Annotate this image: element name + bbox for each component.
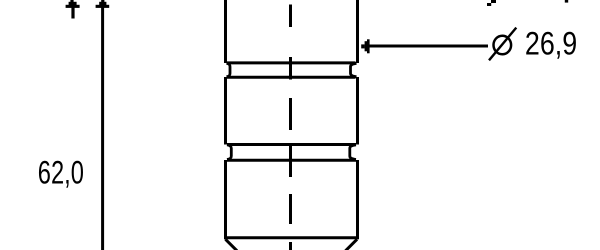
wire groove 1 top line	[227, 61, 356, 64]
wire groove 2 bottom line	[227, 159, 356, 162]
node centerline dashed axis	[289, 5, 292, 250]
wire bottom right chamfer	[346, 239, 358, 250]
wire groove 2 top line	[227, 143, 356, 146]
wire groove 1 bottom line	[227, 76, 356, 79]
wire arrowhead up on 62,0 line (stepped)	[96, 0, 110, 8]
wire left body edge of tappet, upper section	[224, 0, 227, 63]
wire bottom left chamfer	[226, 239, 238, 250]
wire arrowhead left pointing at body edge (stepped)	[361, 39, 369, 53]
wire bottom face line	[224, 236, 359, 239]
wire right groove 1 notch profile	[351, 63, 357, 77]
wire arrowhead up on short stub (stepped)	[66, 0, 80, 8]
wire right body edge of tappet, lower section	[356, 160, 359, 239]
wire dimension line 62,0 vertical	[101, 6, 104, 250]
svg-text:62,0: 62,0	[38, 155, 84, 190]
node diameter symbol	[489, 28, 516, 61]
wire cropped glyph fragment tick top-right	[565, 0, 568, 3]
svg-text:26,9: 26,9	[525, 26, 577, 62]
wire cropped glyph fragment slash top-right	[487, 0, 496, 6]
wire left groove 2 notch profile	[227, 145, 231, 160]
wire left body edge of tappet, middle section	[224, 77, 227, 145]
wire short arrow stub top-left	[71, 6, 74, 19]
wire right body edge of tappet, middle section	[356, 77, 359, 145]
wire left body edge of tappet, lower section	[224, 160, 227, 239]
wire left groove 1 notch profile	[227, 63, 231, 77]
wire dimension line diameter 26,9 horizontal	[368, 45, 488, 48]
wire right groove 2 notch profile	[350, 145, 356, 160]
wire right body edge of tappet, upper section	[356, 0, 359, 63]
